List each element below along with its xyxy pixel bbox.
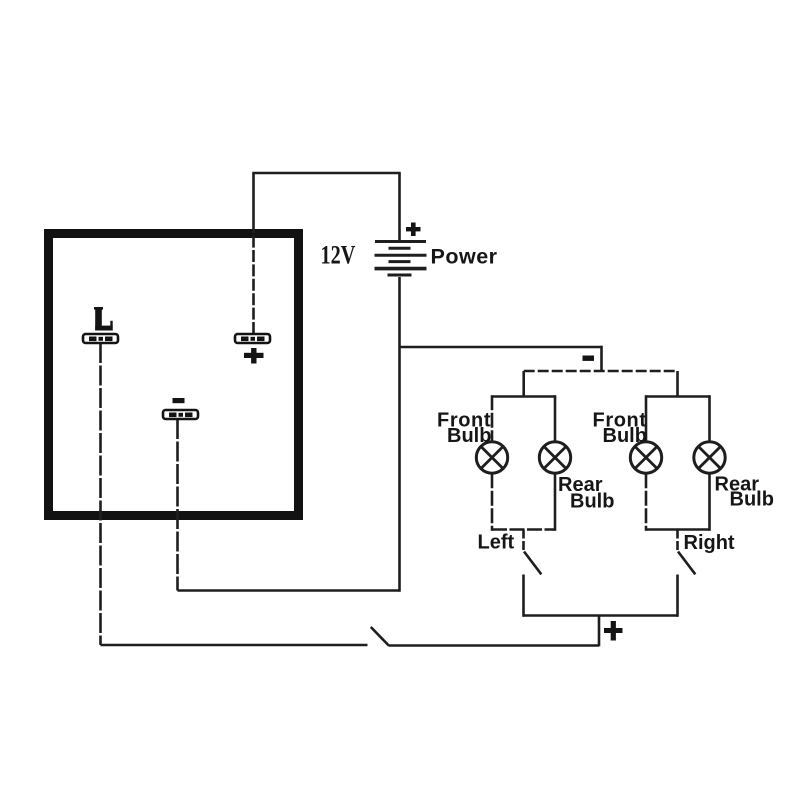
terminal - (spade lug): [163, 410, 198, 419]
wire from relay + terminal up to top rail: [252, 230, 255, 334]
switch S2 Right: lower contact: [676, 575, 679, 617]
switch S1 Left: lower contact: [522, 575, 525, 617]
wire minus terminal horizontal to battery negative: [178, 589, 400, 592]
wire minus corner drop: [600, 346, 603, 371]
label + under relay plus terminal: [244, 348, 264, 364]
node right lamp loop: [646, 395, 710, 531]
wire left group feed drop: [522, 371, 525, 398]
switch S1 Left: blade: [524, 552, 541, 575]
switch S1 Left: upper stub: [522, 530, 525, 552]
switch S3 blade on bottom return: [371, 627, 389, 646]
terminal + (spade lug): [235, 334, 270, 343]
relay box K1: [49, 234, 299, 516]
wire lamp distribution rail: [524, 370, 678, 373]
wire battery positive lead down: [398, 173, 401, 241]
wire from minus terminal down: [176, 419, 179, 591]
label - at lamp minus feed: [583, 356, 595, 361]
wire bottom return left section from L terminal: [101, 644, 368, 647]
label - above relay minus terminal: [173, 398, 185, 403]
svg-text:Bulb: Bulb: [603, 425, 647, 447]
switch S2 Right: blade: [678, 552, 695, 575]
wire battery negative lead down to minus bus: [398, 277, 401, 592]
label + at bottom plus junction: [604, 621, 623, 641]
svg-text:Left: Left: [478, 532, 515, 554]
wire bottom return right section to plus junction: [389, 644, 600, 647]
lamp right front bulb: [630, 442, 661, 473]
svg-text:12V: 12V: [321, 241, 356, 270]
svg-text:Bulb: Bulb: [570, 491, 614, 513]
lamp right rear bulb: [694, 442, 725, 473]
terminal L (spade lug): [83, 334, 118, 343]
lamp left rear bulb: [539, 442, 570, 473]
wire right group feed drop: [676, 371, 679, 398]
wire minus feed horizontal to lamp groups: [400, 346, 602, 349]
svg-text:Bulb: Bulb: [447, 425, 491, 447]
node left lamp loop: [492, 395, 555, 531]
svg-text:Right: Right: [684, 532, 735, 554]
wire bottom collector rail: [524, 614, 678, 617]
svg-text:Power: Power: [431, 245, 498, 269]
switch S2 Right: upper stub: [676, 530, 679, 552]
wire from L terminal down: [99, 343, 102, 645]
svg-text:Bulb: Bulb: [730, 489, 774, 511]
wire top horizontal rail to battery: [252, 172, 400, 175]
label L on relay: [94, 307, 113, 331]
wire plus junction stub: [598, 616, 601, 647]
lamp left front bulb: [476, 442, 507, 473]
battery B1 12V plates: [375, 242, 427, 276]
label + at battery positive: [406, 223, 421, 237]
